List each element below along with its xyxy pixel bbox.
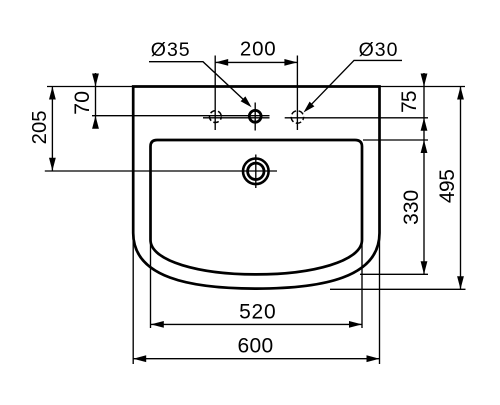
svg-text:330: 330 [400,190,423,225]
svg-text:70: 70 [70,91,94,115]
svg-text:495: 495 [436,170,459,204]
svg-text:Ø30: Ø30 [359,39,399,61]
svg-text:Ø35: Ø35 [151,39,191,61]
svg-text:520: 520 [239,301,276,324]
svg-text:200: 200 [240,38,277,61]
svg-text:75: 75 [398,91,421,113]
svg-text:205: 205 [29,110,51,144]
svg-text:600: 600 [238,335,274,358]
